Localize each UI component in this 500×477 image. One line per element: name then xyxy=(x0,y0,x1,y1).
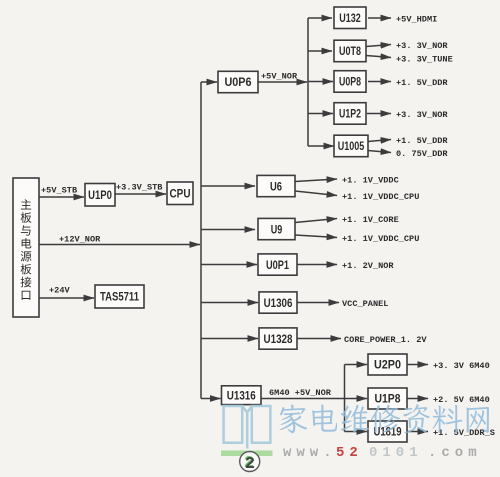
regulator U1328 xyxy=(259,328,297,349)
svg-text:U1P8: U1P8 xyxy=(375,392,401,406)
wire bus to U1306 xyxy=(201,302,258,304)
wire U1328 out xyxy=(297,338,341,340)
watermark circled 2 page number xyxy=(240,452,260,475)
svg-text:U1306: U1306 xyxy=(264,296,293,310)
svg-text:+1. 2V_NOR: +1. 2V_NOR xyxy=(342,261,394,271)
wire U1005 out lower xyxy=(368,151,391,153)
wire bus to U1328 xyxy=(201,338,258,340)
svg-text:U9: U9 xyxy=(271,222,283,236)
svg-text:52: 52 xyxy=(336,445,363,461)
wire U6 out upper xyxy=(295,179,337,182)
wire U1819 out xyxy=(407,431,428,433)
svg-text:U0P1: U0P1 xyxy=(266,258,289,272)
svg-text:+3. 3V_NOR: +3. 3V_NOR xyxy=(396,41,448,51)
svg-text:+3. 3V_NOR: +3. 3V_NOR xyxy=(396,110,448,120)
wire U1005 out upper xyxy=(368,140,391,142)
svg-text:+3. 3V 6M40: +3. 3V 6M40 xyxy=(433,361,490,371)
wire bus to U1P8 xyxy=(345,398,368,400)
wire U9 out lower xyxy=(295,235,337,238)
svg-text:U1P2: U1P2 xyxy=(339,107,361,121)
svg-text:VCC_PANEL: VCC_PANEL xyxy=(342,299,388,309)
wire U0P8 out xyxy=(368,81,391,83)
svg-text:+2. 5V 6M40: +2. 5V 6M40 xyxy=(433,395,490,405)
wire U2P0 out xyxy=(407,364,428,366)
wire +5V_NOR xyxy=(258,81,307,83)
svg-text:+1. 1V_VDDC_CPU: +1. 1V_VDDC_CPU xyxy=(342,234,419,244)
wire bus to U0P1 xyxy=(201,264,257,266)
regulator U0P8 xyxy=(334,71,366,93)
svg-text:+5V_HDMI: +5V_HDMI xyxy=(396,15,437,25)
node 6M40 bus xyxy=(344,365,346,432)
regulator U132 xyxy=(334,7,366,29)
svg-text:U2P0: U2P0 xyxy=(374,358,401,372)
wire bus to U1P2 xyxy=(308,113,333,115)
wire bus to U132 xyxy=(308,17,332,19)
svg-text:U1328: U1328 xyxy=(264,332,293,346)
svg-text:www.: www. xyxy=(283,445,337,461)
svg-text:TAS5711: TAS5711 xyxy=(100,290,139,304)
wire 6M40 +5V_NOR xyxy=(261,398,345,400)
regulator U1005 xyxy=(334,135,368,157)
watermark url www.520101.com xyxy=(283,445,482,461)
svg-text:+12V_NOR: +12V_NOR xyxy=(59,235,101,245)
svg-text:U1005: U1005 xyxy=(338,139,365,153)
svg-text:0. 75V_DDR: 0. 75V_DDR xyxy=(396,149,448,159)
svg-text:+1. 1V_CORE: +1. 1V_CORE xyxy=(342,215,399,225)
node main +12V bus xyxy=(200,82,202,399)
svg-text:+3. 3V_TUNE: +3. 3V_TUNE xyxy=(396,55,453,65)
wire bus to U9 xyxy=(201,229,255,231)
watermark logo open book xyxy=(224,406,271,449)
wire +5V_STB xyxy=(39,196,84,198)
wire bus to U0P8 xyxy=(308,81,333,83)
regulator U0T8 xyxy=(334,40,366,62)
svg-text:+1. 5V_DDR: +1. 5V_DDR xyxy=(396,78,448,88)
watermark green bar xyxy=(221,451,273,457)
wire +3.3V_STB xyxy=(115,193,166,195)
wire U1P8 out xyxy=(407,398,428,400)
wire U0T8 out upper xyxy=(366,45,391,47)
wire bus to U2P0 xyxy=(345,364,368,366)
regulator U1P2 xyxy=(334,103,366,125)
wire U132 out xyxy=(368,17,391,19)
regulator U0P6 xyxy=(218,71,258,92)
regulator U6 xyxy=(257,175,295,196)
regulator U1P0 xyxy=(85,184,115,207)
wire U1306 out xyxy=(297,302,339,304)
wire U0T8 out lower xyxy=(366,56,391,58)
regulator U0P1 xyxy=(258,254,297,275)
svg-text:+3.3V_STB: +3.3V_STB xyxy=(116,183,162,193)
svg-text:.com: .com xyxy=(428,445,482,461)
wire bus to U1005 xyxy=(308,145,334,147)
svg-text:CORE_POWER_1. 2V: CORE_POWER_1. 2V xyxy=(344,335,427,345)
wire +24V xyxy=(39,297,94,299)
svg-text:U132: U132 xyxy=(339,11,361,25)
wire bus to U0T8 xyxy=(308,50,332,52)
svg-text:+24V: +24V xyxy=(49,286,70,296)
node +5V_NOR bus xyxy=(307,18,309,146)
regulator U1316 xyxy=(222,386,262,405)
connector J1 mainboard-power interface box xyxy=(13,178,39,317)
wire bus to U1819 xyxy=(345,431,368,433)
wire bus to U1316 xyxy=(201,398,221,400)
wire U6 out lower xyxy=(295,191,337,196)
svg-text:U0P8: U0P8 xyxy=(339,75,361,89)
svg-text:+1. 1V_VDDC_CPU: +1. 1V_VDDC_CPU xyxy=(342,192,419,202)
svg-text:+1. 1V_VDDC: +1. 1V_VDDC xyxy=(342,176,399,186)
svg-text:0101: 0101 xyxy=(369,445,423,461)
regulator U1306 xyxy=(259,292,297,313)
svg-text:2: 2 xyxy=(245,455,255,474)
svg-text:+5V_STB: +5V_STB xyxy=(41,186,77,196)
wire U0P1 out xyxy=(297,264,337,266)
svg-text:6M40 +5V_NOR: 6M40 +5V_NOR xyxy=(269,388,332,398)
wire U1P2 out xyxy=(367,113,391,115)
wire bus to U6 xyxy=(201,185,255,187)
wire +12V_NOR xyxy=(39,244,200,246)
svg-text:CPU: CPU xyxy=(170,186,191,200)
regulator U1P8 xyxy=(368,388,407,409)
regulator U9 xyxy=(258,218,295,239)
wire bus to U0P6 xyxy=(201,81,217,83)
svg-text:U6: U6 xyxy=(270,179,282,193)
wire U9 out upper xyxy=(295,219,337,223)
regulator U2P0 xyxy=(368,354,407,375)
svg-text:U0T8: U0T8 xyxy=(339,44,361,58)
svg-text:U1P0: U1P0 xyxy=(88,188,112,202)
amplifier TAS5711 xyxy=(95,285,144,308)
svg-text:+1. 5V_DDR: +1. 5V_DDR xyxy=(396,136,448,146)
CPU block xyxy=(167,182,193,205)
svg-text:+1. 5V_DDR_S: +1. 5V_DDR_S xyxy=(433,428,495,438)
svg-text:U1819: U1819 xyxy=(374,425,402,439)
svg-text:U1316: U1316 xyxy=(227,388,256,402)
watermark text 家电维修资料网 xyxy=(279,404,489,433)
svg-text:+5V_NOR: +5V_NOR xyxy=(261,72,298,82)
svg-text:U0P6: U0P6 xyxy=(225,75,252,89)
regulator U1819 xyxy=(368,421,407,442)
